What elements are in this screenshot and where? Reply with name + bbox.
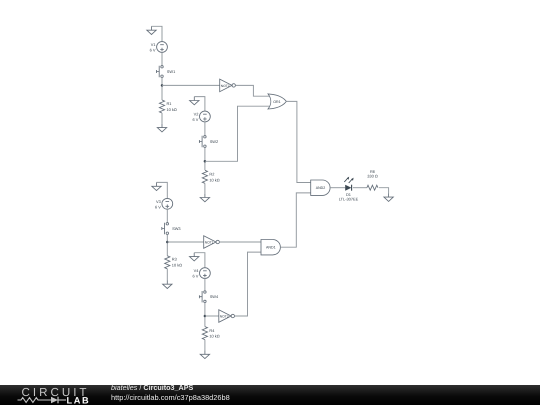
inverter NOT2 <box>220 79 236 92</box>
or-gate OR1 <box>268 94 286 109</box>
wire SW2 to R2 through node <box>204 147 206 170</box>
node A (V1 branch junction) <box>161 84 164 87</box>
voltage source V2 <box>200 111 211 122</box>
wire node B to OR1 input B <box>205 106 269 161</box>
ground (below R2) <box>200 194 209 202</box>
svg-text:R3: R3 <box>172 257 177 262</box>
wire R3 to ground <box>166 269 168 281</box>
LED D1 <box>344 177 353 191</box>
resistor R4 <box>202 327 207 340</box>
footer bar <box>0 385 540 405</box>
svg-text:R2: R2 <box>209 172 214 177</box>
svg-text:SW2: SW2 <box>210 139 218 144</box>
resistor R6 <box>367 185 378 190</box>
resistor R2 <box>202 170 207 183</box>
wire node A to NOT2 input <box>162 84 220 86</box>
node D (V4 branch junction) <box>204 315 207 318</box>
svg-text:LTL-307EE: LTL-307EE <box>339 196 359 201</box>
svg-text:10 kΩ: 10 kΩ <box>209 177 219 182</box>
wire GND3 to V3 top <box>157 182 168 198</box>
ground GND4 (top of V4) <box>190 253 199 261</box>
ground (right of R6) <box>384 193 393 201</box>
ground GND1 (top of V1) <box>147 26 156 34</box>
svg-text:6 V: 6 V <box>155 204 161 209</box>
svg-text:V4: V4 <box>194 268 200 273</box>
wire NOT1 output to AND1 input A <box>219 241 261 243</box>
wire AND2 output to LED D1 <box>330 187 345 189</box>
node C (V3 branch junction) <box>166 241 169 244</box>
svg-text:V1: V1 <box>151 42 156 47</box>
wire node D to NOT3 input <box>205 315 219 317</box>
svg-text:10 kΩ: 10 kΩ <box>209 334 219 339</box>
svg-text:AND2: AND2 <box>316 186 326 190</box>
voltage source V1 <box>157 42 168 53</box>
ground (below R3) <box>163 280 172 288</box>
wire R2 to ground <box>204 183 206 193</box>
ground (below R4) <box>200 350 209 358</box>
resistor R3 <box>165 256 170 269</box>
and-gate AND1 <box>261 240 280 255</box>
wire NOT3 output to AND1 input B <box>235 252 262 316</box>
svg-text:10 kΩ: 10 kΩ <box>172 262 182 267</box>
wire NOT2 output to OR1 input A <box>235 85 269 96</box>
and-gate AND2 <box>311 180 330 195</box>
svg-text:SW1: SW1 <box>167 69 175 74</box>
CircuitLab logo resistor+diode glyph <box>18 397 52 402</box>
switch SW1 <box>157 66 164 78</box>
wire SW4 to R4 through node <box>204 303 206 327</box>
wire GND2 to V2 top <box>194 97 205 112</box>
wire AND1 output to AND2 input B <box>280 193 310 247</box>
svg-text:330 Ω: 330 Ω <box>367 173 378 178</box>
svg-text:SW3: SW3 <box>172 226 180 231</box>
svg-text:LAB: LAB <box>67 395 91 405</box>
wire GND4 to V4 top <box>194 253 205 268</box>
ground GND2 (top of V2) <box>190 97 199 105</box>
inverter NOT3 <box>219 310 235 323</box>
wire V3 to SW3 <box>166 209 168 223</box>
wire GND1 to V1 top <box>152 26 163 41</box>
voltage source V3 <box>162 198 173 209</box>
resistor R1 <box>159 100 164 113</box>
switch SW2 <box>199 136 206 148</box>
svg-text:AND1: AND1 <box>266 246 276 250</box>
svg-text:R1: R1 <box>167 101 172 106</box>
ground (below R1) <box>157 124 166 132</box>
svg-text:NOT2: NOT2 <box>221 84 230 88</box>
wire SW3 to R3 through node <box>166 234 168 255</box>
svg-text:10 kΩ: 10 kΩ <box>167 107 177 112</box>
svg-text:6 V: 6 V <box>193 117 199 122</box>
svg-text:V2: V2 <box>194 112 199 117</box>
svg-text:SW4: SW4 <box>210 294 219 299</box>
switch SW4 <box>199 291 206 303</box>
inverter NOT1 <box>204 236 220 249</box>
svg-text:6 V: 6 V <box>150 48 156 53</box>
svg-text:6 V: 6 V <box>193 274 199 279</box>
wire R6 to ground <box>379 188 389 194</box>
node B (V2 branch junction) <box>204 160 207 163</box>
svg-text:R4: R4 <box>209 328 215 333</box>
wire V2 to SW2 <box>204 122 206 136</box>
wire R1 to ground <box>161 113 163 124</box>
svg-text:V3: V3 <box>156 199 161 204</box>
wire V1 to SW1 <box>161 52 163 65</box>
switch SW3 <box>162 223 169 235</box>
ground GND3 (top of V3) <box>152 182 161 190</box>
svg-text:NOT3: NOT3 <box>220 314 229 318</box>
wire V4 to SW4 <box>204 279 206 292</box>
svg-text:OR1: OR1 <box>273 100 280 104</box>
wire SW1 to R1 through node <box>161 77 163 100</box>
wire OR1 output to AND2 input A <box>286 101 311 182</box>
wire R4 to ground <box>204 340 206 351</box>
voltage source V4 <box>200 268 211 279</box>
wire node C to NOT1 input <box>167 241 203 243</box>
svg-text:NOT1: NOT1 <box>205 240 214 244</box>
wire D1 to R6 <box>353 187 367 189</box>
